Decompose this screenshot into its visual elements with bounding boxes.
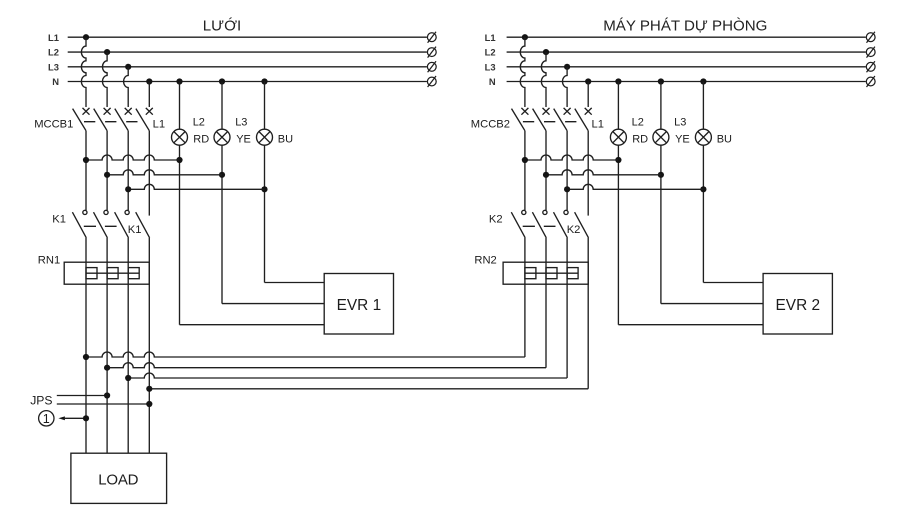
phase-end symbol L1 (side 2)	[866, 32, 875, 43]
node pole2 lamp tap (side 2)	[543, 172, 549, 178]
node L2 tap (side 1)	[104, 49, 110, 55]
wire tie K2 pole 1 to load bus	[86, 352, 525, 357]
wire N drop to MCCB1 pole 4	[148, 82, 150, 108]
wire RD1 to EVR 1	[180, 324, 325, 326]
wire tie K2 pole 4 to load bus	[149, 388, 588, 390]
bus wire N (side 1)	[68, 81, 427, 83]
svg-text:K1: K1	[52, 213, 66, 225]
thermal overload relay RN2	[503, 262, 588, 284]
indicator lamp RD1	[172, 129, 188, 145]
node lamp2 junction (side 1)	[219, 172, 225, 178]
wire phase L3 to lamp BU1	[128, 184, 264, 189]
indicator lamp RD2	[610, 129, 626, 145]
wire K1 pole 2 output	[106, 238, 108, 453]
wire L2 drop to MCCB2 pole 2	[541, 52, 546, 107]
svg-text:BU: BU	[717, 134, 732, 146]
svg-text:K2: K2	[489, 213, 503, 225]
node L3 tap (side 1)	[125, 64, 131, 70]
phase-end symbol N (side 2)	[866, 76, 875, 87]
node N tap lamp3 (side 1)	[261, 78, 267, 84]
svg-text:L3: L3	[485, 61, 496, 72]
wire N to lamp RD2	[617, 82, 619, 130]
svg-text:MCCB1: MCCB1	[34, 119, 73, 131]
node lamp2 junction (side 2)	[658, 172, 664, 178]
wire L2 drop to MCCB1 pole 2	[103, 52, 108, 107]
wire tie K2 pole 3 to load bus	[128, 373, 567, 378]
node N tap lamp2 (side 1)	[219, 78, 225, 84]
wire N to lamp YE2	[660, 82, 662, 130]
contactor K2	[511, 210, 588, 238]
svg-text:MÁY PHÁT DỰ PHÒNG: MÁY PHÁT DỰ PHÒNG	[603, 18, 767, 35]
svg-text:K2: K2	[567, 224, 581, 236]
node N tap lamp3 (side 2)	[700, 78, 706, 84]
svg-text:RN2: RN2	[474, 254, 496, 266]
svg-text:N: N	[489, 76, 496, 87]
wire lamp RD2 down to EVR 2	[617, 145, 619, 325]
wire JPS to pole 2	[57, 395, 107, 397]
bus wire L3 (side 2)	[507, 66, 866, 68]
node JPS tap pole 4	[146, 401, 152, 407]
bus wire N (side 2)	[507, 81, 866, 83]
wire N to lamp BU2	[702, 82, 704, 130]
node lamp1 junction (side 2)	[615, 157, 621, 163]
indicator lamp YE1	[214, 129, 230, 145]
svg-text:LOAD: LOAD	[98, 471, 138, 488]
svg-text:LƯỚI: LƯỚI	[203, 18, 241, 35]
node lamp3 junction (side 2)	[700, 186, 706, 192]
node N tap (side 1)	[146, 78, 152, 84]
svg-text:JPS: JPS	[30, 393, 52, 407]
wire N to lamp BU1	[264, 82, 266, 130]
svg-text:N: N	[52, 76, 59, 87]
wire L1 drop to MCCB1 pole 1	[81, 37, 86, 107]
wire BU2 to EVR 2	[703, 282, 763, 284]
svg-text:L1: L1	[153, 118, 165, 130]
wire K2 pole 4 output	[587, 238, 589, 389]
svg-text:RD: RD	[193, 134, 209, 146]
node L1 tap (side 2)	[522, 34, 528, 40]
svg-text:YE: YE	[675, 134, 690, 146]
wire phase L1 to lamp RD1	[86, 155, 180, 160]
node N tap (side 2)	[585, 78, 591, 84]
phase-end symbol L1 (side 1)	[427, 32, 436, 43]
wire L3 drop to MCCB1 pole 3	[124, 67, 129, 107]
phase-end symbol L2 (side 1)	[427, 47, 436, 58]
svg-text:L3: L3	[674, 117, 686, 129]
wire lamp BU2 down to EVR 2	[702, 145, 704, 282]
phase-end symbol L2 (side 2)	[866, 47, 875, 58]
wire K1 pole 4 output	[148, 238, 150, 453]
voltage relay EVR 1 box	[324, 274, 393, 335]
wire lamp YE1 down to EVR 1	[221, 145, 223, 303]
indicator lamp BU1	[257, 129, 273, 145]
bus wire L2 (side 1)	[68, 51, 427, 53]
node tie junction pole 2	[104, 365, 110, 371]
wire K2 pole 2 output	[545, 238, 547, 368]
node pole2 lamp tap (side 1)	[104, 172, 110, 178]
contactor K1	[72, 210, 149, 238]
phase-end symbol L3 (side 2)	[866, 61, 875, 72]
voltage relay EVR 2 box	[763, 274, 832, 335]
wire K1 pole 1 output	[85, 238, 87, 453]
node JPS tap pole 2	[104, 392, 110, 398]
node N tap lamp2 (side 2)	[658, 78, 664, 84]
svg-text:EVR 2: EVR 2	[776, 297, 820, 314]
indicator lamp BU2	[695, 129, 711, 145]
wire JPS to pole 4	[57, 403, 150, 405]
wire tie K2 pole 2 to load bus	[107, 363, 546, 368]
wire RD2 to EVR 2	[618, 324, 763, 326]
wire BU1 to EVR 1	[265, 282, 325, 284]
wire phase L2 to lamp YE2	[546, 170, 661, 175]
node N tap lamp1 (side 2)	[615, 78, 621, 84]
node tie junction pole 1	[83, 354, 89, 360]
node pole1 lamp tap (side 2)	[522, 157, 528, 163]
wire phase L1 to lamp RD2	[525, 155, 619, 160]
breaker MCCB2	[512, 108, 592, 216]
wire K1 pole 3 output	[127, 238, 129, 453]
node pole3 lamp tap (side 2)	[564, 186, 570, 192]
svg-text:L3: L3	[48, 61, 59, 72]
arrow callout 1 to pole 1	[58, 416, 65, 420]
bus wire L1 (side 1)	[68, 36, 427, 38]
svg-text:L2: L2	[632, 117, 644, 129]
svg-text:EVR 1: EVR 1	[337, 297, 381, 314]
wire K2 pole 1 output	[524, 238, 526, 357]
bus wire L2 (side 2)	[507, 51, 866, 53]
node L2 tap (side 2)	[543, 49, 549, 55]
wire lamp YE2 down to EVR 2	[660, 145, 662, 303]
svg-text:K1: K1	[128, 224, 142, 236]
node callout tap pole 1	[83, 415, 89, 421]
node lamp3 junction (side 1)	[261, 186, 267, 192]
node pole1 lamp tap (side 1)	[83, 157, 89, 163]
bus wire L3 (side 1)	[68, 66, 427, 68]
svg-text:L1: L1	[485, 32, 496, 43]
svg-text:L2: L2	[485, 47, 496, 58]
wire phase L2 to lamp YE1	[107, 170, 222, 175]
indicator lamp YE2	[653, 129, 669, 145]
svg-text:1: 1	[43, 412, 50, 426]
wire lamp RD1 down to EVR 1	[179, 145, 181, 325]
wire N drop to MCCB2 pole 4	[587, 82, 589, 108]
svg-text:BU: BU	[278, 134, 293, 146]
wire N to lamp RD1	[179, 82, 181, 130]
svg-text:L2: L2	[48, 47, 59, 58]
node pole3 lamp tap (side 1)	[125, 186, 131, 192]
wire YE2 to EVR 2	[661, 303, 763, 305]
node lamp1 junction (side 1)	[176, 157, 182, 163]
wire L3 drop to MCCB2 pole 3	[563, 67, 568, 107]
wire K2 pole 3 output	[566, 238, 568, 378]
breaker MCCB1	[73, 108, 153, 216]
wire L1 drop to MCCB2 pole 1	[520, 37, 525, 107]
svg-text:L2: L2	[193, 117, 205, 129]
wire phase L3 to lamp BU2	[567, 184, 703, 189]
wire YE1 to EVR 1	[222, 303, 324, 305]
svg-text:L3: L3	[235, 117, 247, 129]
phase-end symbol N (side 1)	[427, 76, 436, 87]
wire lamp BU1 down to EVR 1	[264, 145, 266, 282]
phase-end symbol L3 (side 1)	[427, 61, 436, 72]
node tie junction pole 4	[146, 386, 152, 392]
callout circle 1	[39, 411, 54, 426]
svg-text:RD: RD	[632, 134, 648, 146]
svg-text:L1: L1	[592, 118, 604, 130]
node L1 tap (side 1)	[83, 34, 89, 40]
svg-text:L1: L1	[48, 32, 59, 43]
node N tap lamp1 (side 1)	[176, 78, 182, 84]
node L3 tap (side 2)	[564, 64, 570, 70]
thermal overload relay RN1	[64, 262, 149, 284]
node tie junction pole 3	[125, 375, 131, 381]
wire N to lamp YE1	[221, 82, 223, 130]
svg-text:MCCB2: MCCB2	[471, 119, 510, 131]
load box	[71, 453, 167, 503]
svg-text:YE: YE	[236, 134, 251, 146]
bus wire L1 (side 2)	[507, 36, 866, 38]
svg-text:RN1: RN1	[38, 254, 60, 266]
